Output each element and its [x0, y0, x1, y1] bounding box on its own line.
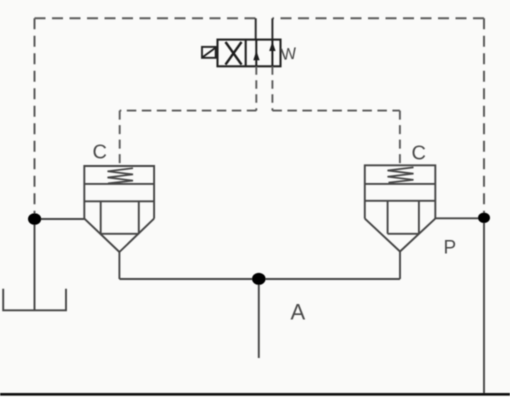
cartridge valve CV1 poppet [101, 201, 139, 234]
wire dashed pilot drop from valve port 1 [255, 66, 257, 110]
svg-text:C: C [93, 142, 107, 164]
solenoid valve V1 flow arrow 1 [255, 40, 257, 67]
wire right port from CV2 [435, 217, 484, 219]
wire bottom bus A [119, 278, 400, 280]
wire left port to CV1 [35, 218, 85, 220]
wire A stub down [258, 279, 260, 358]
wire CV1 outlet drop [118, 252, 120, 279]
solenoid valve V1 flow arrow 2 [271, 40, 273, 67]
node junction A [252, 273, 266, 285]
solenoid coil S1 [202, 47, 216, 58]
cartridge valve CV2 body [365, 165, 436, 218]
wire dashed pilot drop into left cartridge [119, 111, 121, 166]
svg-text:A: A [291, 300, 306, 325]
wire dashed pilot drop into right cartridge [399, 111, 401, 166]
wire tank drop [34, 219, 36, 310]
tank T1 [3, 289, 66, 311]
svg-text:C: C [412, 143, 426, 165]
cartridge valve CV2 poppet [388, 201, 419, 234]
cartridge valve CV1 spring [108, 168, 134, 183]
svg-text:P: P [444, 238, 457, 259]
wire dashed pilot horizontal to left cartridge [120, 110, 257, 112]
node junction left [28, 213, 41, 225]
wire dashed pilot drop from valve port 2 [271, 66, 273, 110]
wire dashed pilot frame right vertical [483, 18, 485, 217]
cartridge valve CV1 body [84, 166, 154, 219]
cartridge valve CV2 seat cone [365, 219, 436, 252]
svg-text:W: W [280, 45, 298, 64]
bottom border line [0, 393, 510, 396]
cartridge valve CV1 seat cone [84, 219, 154, 252]
wire valve top port 2 [271, 18, 273, 39]
solenoid valve V1 body [218, 40, 281, 67]
wire dashed pilot frame top-right segment [272, 17, 484, 19]
node junction right P [478, 213, 490, 223]
wire dashed pilot frame top-left segment [35, 17, 256, 19]
wire dashed pilot frame left vertical [34, 18, 36, 219]
wire dashed pilot horizontal to right cartridge [272, 110, 400, 112]
wire valve top port 1 [255, 18, 257, 39]
solenoid valve V1 crossed-position X [226, 42, 242, 65]
wire CV2 outlet drop [399, 252, 401, 280]
wire P drop to bottom [483, 218, 485, 395]
cartridge valve CV2 spring [388, 167, 414, 182]
